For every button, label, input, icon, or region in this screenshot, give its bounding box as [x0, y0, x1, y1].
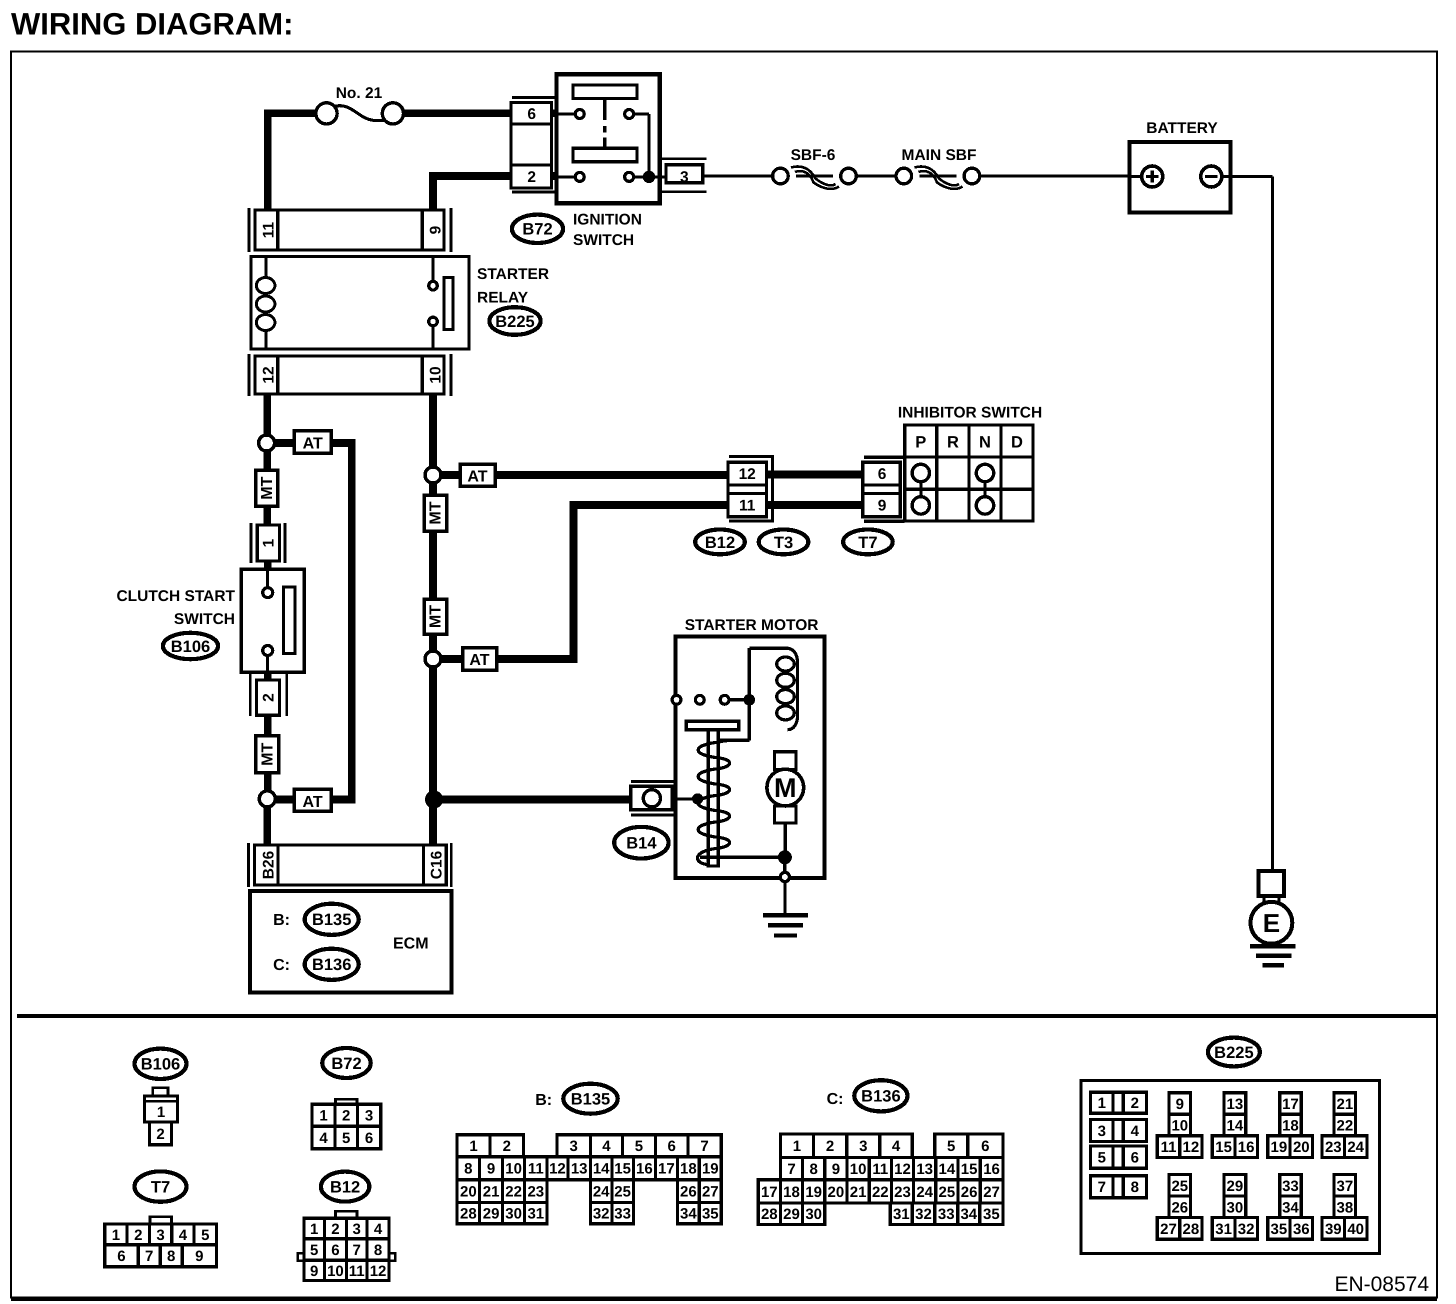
svg-text:11: 11 [528, 1161, 544, 1178]
B136 view pins 1-4 [780, 1134, 912, 1157]
svg-text:SWITCH: SWITCH [174, 611, 235, 628]
T7 view pins 1-5 [105, 1224, 217, 1245]
svg-text:1: 1 [319, 1108, 327, 1125]
svg-text:B225: B225 [1214, 1044, 1253, 1062]
svg-text:B135: B135 [571, 1091, 610, 1109]
AT box right-2 [463, 648, 497, 671]
wire: lower AT node down to ECM B26 [263, 806, 271, 848]
svg-text:18: 18 [680, 1161, 697, 1178]
svg-text:1: 1 [157, 1104, 165, 1121]
svg-text:20: 20 [828, 1184, 845, 1201]
svg-text:2: 2 [342, 1108, 350, 1125]
ignition I-beam bottom bar [573, 148, 637, 161]
svg-text:P: P [915, 434, 926, 452]
svg-text:9: 9 [310, 1263, 318, 1280]
svg-text:16: 16 [636, 1161, 653, 1178]
svg-text:5: 5 [1098, 1150, 1106, 1167]
B72 label [512, 215, 563, 243]
svg-text:7: 7 [1098, 1179, 1106, 1196]
B135 view pins 32-33 [591, 1202, 634, 1223]
svg-text:14: 14 [1227, 1117, 1244, 1134]
wire: battery - rightward [1231, 175, 1273, 178]
svg-text:18: 18 [1282, 1117, 1299, 1134]
svg-text:6: 6 [1131, 1150, 1139, 1167]
B12 view pins 9-12 [304, 1260, 389, 1280]
svg-text:21: 21 [483, 1184, 500, 1201]
B225 view pins 7-8 [1090, 1176, 1146, 1198]
svg-text:9: 9 [1176, 1096, 1184, 1113]
svg-text:INHIBITOR SWITCH: INHIBITOR SWITCH [898, 405, 1042, 422]
svg-text:11: 11 [349, 1263, 365, 1280]
svg-text:1: 1 [793, 1138, 801, 1155]
svg-text:3: 3 [570, 1138, 578, 1155]
svg-text:33: 33 [938, 1206, 955, 1223]
B225 view pins 3-4 [1090, 1120, 1146, 1142]
svg-text:19: 19 [1271, 1139, 1288, 1156]
svg-text:18: 18 [783, 1184, 800, 1201]
clutch start switch B106 [241, 569, 304, 672]
svg-text:5: 5 [947, 1138, 955, 1155]
svg-text:B:: B: [273, 912, 290, 929]
svg-text:11: 11 [872, 1161, 888, 1178]
wire stub: pin 2 into ignition switch [545, 172, 560, 180]
svg-text:26: 26 [680, 1184, 697, 1201]
svg-text:17: 17 [658, 1161, 675, 1178]
wire: down to relay pin 9 [429, 172, 437, 212]
B225 view pin 22 [1334, 1114, 1356, 1136]
svg-text:4: 4 [602, 1138, 611, 1155]
svg-text:10: 10 [850, 1161, 867, 1178]
B225 view pin 14 [1224, 1114, 1246, 1136]
svg-text:7: 7 [353, 1242, 361, 1259]
node AT (right upper) [425, 467, 441, 483]
B225 view pins 1-2 [1090, 1092, 1146, 1113]
svg-text:27: 27 [983, 1184, 1000, 1201]
svg-text:RELAY: RELAY [477, 290, 529, 307]
B225 view pins 15-16 [1212, 1136, 1257, 1158]
svg-text:26: 26 [961, 1184, 978, 1201]
ignition I-beam stem (dashed) [603, 99, 606, 121]
svg-text:17: 17 [1282, 1096, 1299, 1113]
B225 view pins 23-24 [1322, 1136, 1367, 1158]
svg-text:B72: B72 [522, 221, 552, 239]
svg-text:6: 6 [981, 1138, 989, 1155]
svg-text:B135: B135 [312, 911, 351, 929]
svg-text:5: 5 [342, 1130, 350, 1147]
wire: SBF-6 to MAIN SBF [857, 174, 896, 177]
svg-text:SWITCH: SWITCH [573, 232, 634, 249]
T7 view pins 6-9 [105, 1245, 217, 1267]
svg-text:12: 12 [370, 1263, 387, 1280]
svg-text:WIRING DIAGRAM:: WIRING DIAGRAM: [11, 7, 293, 42]
clutch pin 1 connector [250, 523, 253, 563]
plunger return spring [697, 741, 729, 865]
svg-text:20: 20 [460, 1184, 477, 1201]
B225 view pin 26 [1169, 1196, 1191, 1218]
svg-text:2: 2 [1131, 1095, 1139, 1112]
svg-text:MAIN SBF: MAIN SBF [902, 147, 977, 164]
MT box left-1 [256, 470, 278, 506]
relay coil [265, 256, 268, 277]
svg-text:31: 31 [527, 1205, 544, 1222]
AT box right-1 [460, 464, 495, 486]
svg-text:7: 7 [145, 1248, 153, 1265]
svg-text:1: 1 [310, 1221, 318, 1238]
svg-text:8: 8 [167, 1248, 175, 1265]
svg-text:MT: MT [259, 476, 276, 499]
svg-text:21: 21 [850, 1184, 867, 1201]
svg-text:30: 30 [805, 1206, 822, 1223]
B225 view pin 13 [1224, 1093, 1246, 1115]
svg-text:7: 7 [787, 1161, 795, 1178]
B225 view pins 35-36 [1268, 1218, 1313, 1240]
svg-text:11: 11 [1161, 1139, 1177, 1156]
svg-text:31: 31 [1215, 1221, 1232, 1238]
svg-text:23: 23 [894, 1184, 911, 1201]
svg-text:10: 10 [327, 1263, 344, 1280]
svg-text:13: 13 [916, 1161, 933, 1178]
wire: pin 1 to clutch switch [264, 559, 272, 571]
svg-text:AT: AT [303, 794, 323, 811]
svg-text:3: 3 [353, 1221, 361, 1238]
B225 view pin 21 [1334, 1093, 1356, 1115]
svg-text:32: 32 [915, 1206, 932, 1223]
svg-text:B12: B12 [705, 534, 735, 552]
svg-text:E: E [1263, 908, 1280, 938]
svg-text:6: 6 [331, 1242, 339, 1259]
svg-text:12: 12 [549, 1161, 566, 1178]
solenoid coil [786, 648, 797, 730]
svg-text:25: 25 [1171, 1178, 1188, 1195]
svg-text:2: 2 [331, 1221, 339, 1238]
svg-text:8: 8 [464, 1161, 472, 1178]
svg-text:22: 22 [1337, 1117, 1354, 1134]
svg-text:6: 6 [527, 106, 536, 123]
svg-text:11: 11 [739, 498, 756, 515]
wire: junction down to ECM C16 [429, 800, 437, 848]
ignition pin 3 connector [661, 157, 706, 160]
B136 view pins 31-35 [890, 1203, 1003, 1225]
B135 view pins 24-25 [591, 1180, 634, 1203]
svg-text:40: 40 [1347, 1221, 1364, 1238]
svg-text:CLUTCH START: CLUTCH START [116, 588, 235, 605]
svg-text:9: 9 [195, 1248, 203, 1265]
wire: MT box down to clutch pin 1 [263, 504, 271, 527]
svg-text:STARTER: STARTER [477, 266, 549, 283]
B135 view pins 20-23 [457, 1180, 547, 1203]
B225 view pin 38 [1334, 1196, 1356, 1218]
svg-text:31: 31 [893, 1206, 910, 1223]
solenoid pull-in line [748, 648, 751, 740]
wire: battery - down to ground E [1271, 177, 1274, 871]
svg-text:8: 8 [1131, 1179, 1139, 1196]
B225 view pins 5-6 [1090, 1146, 1146, 1168]
svg-text:2: 2 [503, 1138, 511, 1155]
B135 view pins 8-19 [457, 1157, 721, 1180]
svg-text:AT: AT [303, 436, 323, 453]
B225 view pin 25 [1169, 1175, 1191, 1197]
svg-text:10: 10 [427, 366, 444, 383]
wire: left wire to fuse No.21 [268, 110, 316, 118]
svg-text:4: 4 [1131, 1123, 1140, 1140]
wire: ignition pin 3 to SBF-6 [703, 174, 772, 177]
svg-text:25: 25 [939, 1184, 956, 1201]
svg-text:34: 34 [1282, 1199, 1299, 1216]
svg-text:4: 4 [374, 1221, 383, 1238]
svg-text:22: 22 [505, 1184, 522, 1201]
svg-text:1: 1 [1098, 1095, 1106, 1112]
battery - terminal [1201, 166, 1222, 187]
svg-text:37: 37 [1337, 1178, 1354, 1195]
svg-text:AT: AT [469, 652, 489, 669]
connector block T7 pins 6/9 [864, 456, 905, 459]
node AT (left lower) [259, 791, 275, 807]
B225 view pins 39-40 [1322, 1218, 1367, 1240]
wire: junction to B14 starter motor [434, 796, 640, 804]
svg-text:4: 4 [319, 1130, 328, 1147]
svg-text:34: 34 [680, 1205, 697, 1222]
wire: down to relay pin 11 [264, 110, 272, 212]
svg-text:5: 5 [201, 1227, 209, 1244]
connector view B72 [322, 1048, 370, 1078]
svg-text:15: 15 [614, 1161, 631, 1178]
svg-text:14: 14 [593, 1161, 610, 1178]
clutch pin 2 connector [249, 674, 252, 716]
svg-text:B225: B225 [495, 313, 534, 331]
svg-text:9: 9 [487, 1161, 495, 1178]
svg-text:19: 19 [805, 1184, 822, 1201]
B136 view pins 28-30 [758, 1203, 825, 1225]
svg-text:2: 2 [527, 169, 536, 186]
svg-text:B:: B: [535, 1092, 552, 1109]
wire: lower right AT node to junction [429, 665, 437, 800]
svg-text:MT: MT [259, 743, 276, 766]
svg-text:33: 33 [1282, 1178, 1299, 1195]
svg-text:10: 10 [1171, 1117, 1188, 1134]
svg-text:9: 9 [427, 225, 444, 234]
B12 view pins 5-8 [304, 1239, 389, 1260]
B225 view pins 31-32 [1212, 1218, 1257, 1240]
B225 view pin 33 [1280, 1175, 1302, 1197]
connector B14 [631, 780, 675, 783]
wire: relay pin 10 down to AT node [429, 394, 437, 470]
wire: lower right AT node to AT box [439, 655, 465, 663]
ground (starter motor) [783, 883, 786, 915]
B135 view pins 26-27 [677, 1180, 721, 1203]
fuse MAIN SBF [896, 168, 912, 184]
svg-text:24: 24 [1347, 1139, 1364, 1156]
svg-text:23: 23 [1325, 1139, 1342, 1156]
svg-text:21: 21 [1337, 1096, 1354, 1113]
svg-text:3: 3 [156, 1227, 164, 1244]
B225 view pin 30 [1224, 1196, 1246, 1218]
svg-text:ECM: ECM [393, 936, 429, 953]
wire: lower AT box to riser [497, 655, 574, 663]
B225 view pin 37 [1334, 1175, 1356, 1197]
motor ground wire [700, 856, 785, 859]
starter relay box B225 [251, 256, 469, 349]
ECM pin row B26/C16 [247, 843, 250, 887]
svg-text:27: 27 [1160, 1221, 1177, 1238]
svg-text:B72: B72 [331, 1055, 361, 1073]
motor M [775, 752, 797, 770]
svg-text:SBF-6: SBF-6 [791, 147, 836, 164]
starter relay pin row 11/9 [248, 208, 251, 252]
svg-text:16: 16 [983, 1161, 1000, 1178]
svg-text:27: 27 [702, 1184, 719, 1201]
wire: MAIN SBF to battery + [981, 174, 1130, 177]
svg-text:N: N [979, 434, 991, 452]
svg-text:3: 3 [1098, 1123, 1106, 1140]
connector view T7 [135, 1171, 187, 1201]
MT box right-1 [424, 495, 447, 531]
svg-text:13: 13 [1227, 1096, 1244, 1113]
svg-text:19: 19 [702, 1161, 719, 1178]
svg-text:B12: B12 [330, 1179, 360, 1197]
wire: AT node down to MT box [263, 449, 271, 474]
svg-text:14: 14 [939, 1161, 956, 1178]
svg-text:1: 1 [261, 538, 278, 547]
svg-text:32: 32 [1238, 1221, 1255, 1238]
contact circles [672, 695, 681, 704]
wire: T3 pin 12 to T7 pin 6 [764, 471, 866, 479]
B136 view pins 17-27 [758, 1180, 1003, 1203]
svg-text:8: 8 [810, 1161, 818, 1178]
svg-text:6: 6 [667, 1138, 675, 1155]
wire: riser to T3 pin 11 [574, 501, 734, 509]
svg-text:35: 35 [702, 1205, 719, 1222]
svg-text:26: 26 [1171, 1199, 1188, 1216]
svg-text:B106: B106 [141, 1056, 180, 1074]
fuse SBF-6 [773, 168, 789, 184]
svg-text:6: 6 [365, 1130, 373, 1147]
svg-text:30: 30 [1227, 1199, 1244, 1216]
svg-text:29: 29 [783, 1206, 800, 1223]
svg-text:STARTER MOTOR: STARTER MOTOR [685, 617, 819, 634]
svg-text:B136: B136 [312, 956, 351, 974]
separator line [17, 1014, 1437, 1018]
B225 view pin 29 [1224, 1175, 1246, 1197]
svg-text:6: 6 [878, 466, 887, 483]
wire stub: pin 6 into ignition switch [545, 110, 560, 118]
B72 view pins 4-6 [312, 1126, 381, 1149]
ECM box [250, 891, 452, 993]
svg-text:C:: C: [827, 1091, 844, 1108]
svg-text:28: 28 [460, 1205, 477, 1222]
wire: MT box down to lower AT node [264, 771, 272, 793]
svg-text:12: 12 [739, 466, 756, 483]
wire: lower-left AT node to AT box [272, 796, 296, 804]
B136 view pins 5-6 [935, 1134, 1003, 1157]
svg-text:2: 2 [156, 1126, 164, 1143]
svg-text:1: 1 [469, 1138, 477, 1155]
svg-text:M: M [774, 773, 797, 803]
svg-text:32: 32 [593, 1205, 610, 1222]
svg-text:15: 15 [1215, 1139, 1232, 1156]
B135 view pins 3-7 [557, 1135, 721, 1157]
svg-text:AT: AT [467, 469, 487, 486]
AT box lower-left [294, 789, 331, 811]
svg-text:23: 23 [527, 1184, 544, 1201]
svg-text:T7: T7 [858, 534, 877, 552]
inhibitor P contacts [919, 482, 922, 496]
starter relay pin row 12/10 [248, 354, 251, 396]
svg-text:28: 28 [1183, 1221, 1200, 1238]
wire: clutch switch to pin 2 [264, 670, 272, 682]
svg-text:9: 9 [832, 1161, 840, 1178]
wire: AT box to T3 pin 12 [495, 471, 733, 479]
svg-text:12: 12 [1183, 1139, 1200, 1156]
plunger T bar [686, 721, 739, 729]
battery + terminal [1142, 166, 1163, 187]
svg-text:7: 7 [700, 1138, 708, 1155]
svg-text:6: 6 [117, 1248, 125, 1265]
svg-text:2: 2 [826, 1138, 834, 1155]
svg-text:3: 3 [680, 169, 689, 186]
svg-text:B106: B106 [171, 638, 210, 656]
svg-text:No. 21: No. 21 [336, 85, 383, 102]
B135 view pins 34-35 [677, 1202, 721, 1223]
svg-text:R: R [947, 434, 959, 452]
svg-text:5: 5 [635, 1138, 643, 1155]
svg-text:34: 34 [960, 1206, 977, 1223]
B135 view pins 1-2 [457, 1135, 523, 1157]
wire: AT box to bypass riser [331, 439, 351, 447]
svg-text:9: 9 [878, 498, 887, 515]
svg-text:16: 16 [1238, 1139, 1255, 1156]
svg-text:29: 29 [1227, 1178, 1244, 1195]
AT box upper-left [294, 431, 331, 454]
svg-text:8: 8 [374, 1242, 382, 1259]
svg-text:38: 38 [1337, 1199, 1354, 1216]
wire: ignition pin 2 leftward [433, 172, 514, 180]
relay contact [432, 256, 435, 280]
svg-text:33: 33 [614, 1205, 631, 1222]
MT box left-2 [256, 736, 279, 773]
svg-text:24: 24 [593, 1184, 610, 1201]
B225 view pin 34 [1280, 1196, 1302, 1218]
svg-text:3: 3 [365, 1108, 373, 1125]
svg-text:11: 11 [261, 221, 278, 238]
connector view B225 [1208, 1038, 1260, 1067]
svg-text:2: 2 [134, 1227, 142, 1244]
wire: right AT node down to MT box [429, 481, 437, 497]
fuse No. 21 [316, 103, 337, 124]
svg-text:D: D [1011, 434, 1023, 452]
B135 view pins 28-31 [457, 1202, 547, 1223]
svg-text:2: 2 [261, 693, 278, 702]
junction node (ECM C16 / starter motor) [425, 791, 443, 809]
ignition switch U: B72 [557, 74, 660, 203]
wire: AT bypass vertical [348, 439, 356, 803]
svg-text:29: 29 [483, 1205, 500, 1222]
svg-text:24: 24 [916, 1184, 933, 1201]
svg-text:EN-08574: EN-08574 [1334, 1273, 1429, 1296]
svg-text:22: 22 [872, 1184, 889, 1201]
wire: T3 pin 11 to T7 pin 9 [764, 501, 866, 509]
wire: riser up to pin 11 level [570, 501, 578, 663]
svg-text:3: 3 [859, 1138, 867, 1155]
svg-text:5: 5 [310, 1242, 318, 1259]
B225 view pin 9 [1169, 1093, 1191, 1115]
svg-text:B26: B26 [261, 850, 278, 879]
svg-text:30: 30 [505, 1205, 522, 1222]
B225 view pins 27-28 [1157, 1218, 1202, 1240]
svg-text:12: 12 [894, 1161, 911, 1178]
svg-text:B136: B136 [861, 1088, 900, 1106]
wire: MT box down to lower right AT node [429, 632, 437, 653]
svg-text:IGNITION: IGNITION [573, 212, 642, 229]
